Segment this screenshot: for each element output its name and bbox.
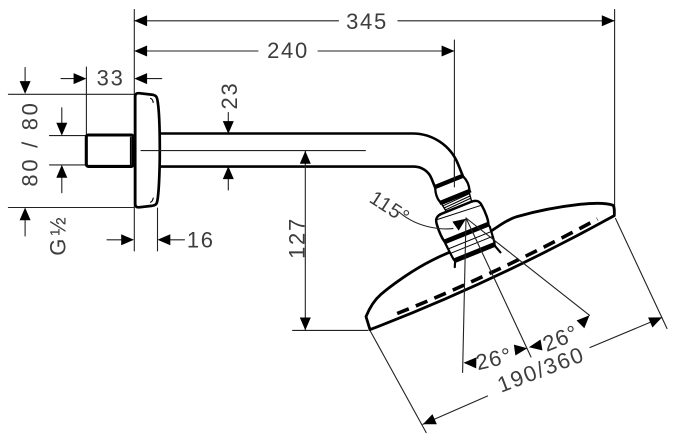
svg-text:16: 16 xyxy=(187,227,215,252)
svg-text:240: 240 xyxy=(267,38,309,63)
spray line right xyxy=(466,218,590,315)
tube end band xyxy=(434,174,464,189)
shower head body xyxy=(366,203,614,329)
spray face nozzle dashes xyxy=(397,219,597,313)
ball seam line xyxy=(438,202,481,222)
shower arm inner line xyxy=(156,167,435,187)
dimension 190/360 xyxy=(423,317,662,424)
svg-text:33: 33 xyxy=(97,66,125,91)
wall spigot G1/2 xyxy=(86,135,133,166)
extension line 190/360 right xyxy=(616,219,668,329)
skirt seam lines xyxy=(448,232,493,254)
spray line center xyxy=(466,218,531,357)
extension line G1/2 bottom xyxy=(50,164,89,166)
joint cup xyxy=(433,198,489,241)
extension line 80 bottom xyxy=(8,207,134,209)
extension line 240 right over joint xyxy=(453,160,455,187)
svg-text:23: 23 xyxy=(217,82,242,110)
spray line left xyxy=(463,218,466,373)
cup dark band xyxy=(443,222,491,245)
dimension 240 xyxy=(134,50,454,52)
extension line 33 left xyxy=(85,67,87,135)
dimension 127 xyxy=(304,151,306,330)
union nut xyxy=(434,176,471,202)
centerline arm axis xyxy=(141,150,365,152)
svg-text:G½: G½ xyxy=(46,214,71,255)
extension line 190/360 left xyxy=(370,331,426,433)
dimension 26 right arrows xyxy=(528,340,543,353)
extension line wall face xyxy=(133,10,135,251)
shower arm outer line xyxy=(156,133,463,175)
svg-text:115°: 115° xyxy=(365,187,413,229)
extension line 240 right xyxy=(453,40,455,187)
nut bottom band xyxy=(439,189,472,205)
dimension 80/80 xyxy=(24,68,26,237)
leader 115 degrees xyxy=(399,212,453,229)
dimension 33 xyxy=(61,78,162,80)
svg-text:80 / 80: 80 / 80 xyxy=(17,100,42,186)
joint skirt flare xyxy=(453,246,500,271)
wall flange escutcheon xyxy=(135,93,160,207)
svg-text:345: 345 xyxy=(346,9,388,34)
threaded neck xyxy=(442,193,473,212)
skirt xyxy=(446,226,496,260)
extension line 345 right xyxy=(614,10,616,215)
ball joint assembly xyxy=(422,171,501,270)
dimension 16 xyxy=(107,239,185,241)
dimension 23 xyxy=(227,113,229,191)
extension line 127 bottom xyxy=(293,329,368,331)
skirt band xyxy=(453,242,497,263)
extension line G1/2 top xyxy=(50,135,89,137)
dimension 26 left arrows xyxy=(463,357,476,368)
dimension G1/2 arrows xyxy=(61,108,63,193)
dimension 345 xyxy=(134,20,614,22)
extension line 16 right xyxy=(157,208,159,251)
extension line 80 top xyxy=(8,93,134,95)
svg-text:127: 127 xyxy=(285,217,310,259)
